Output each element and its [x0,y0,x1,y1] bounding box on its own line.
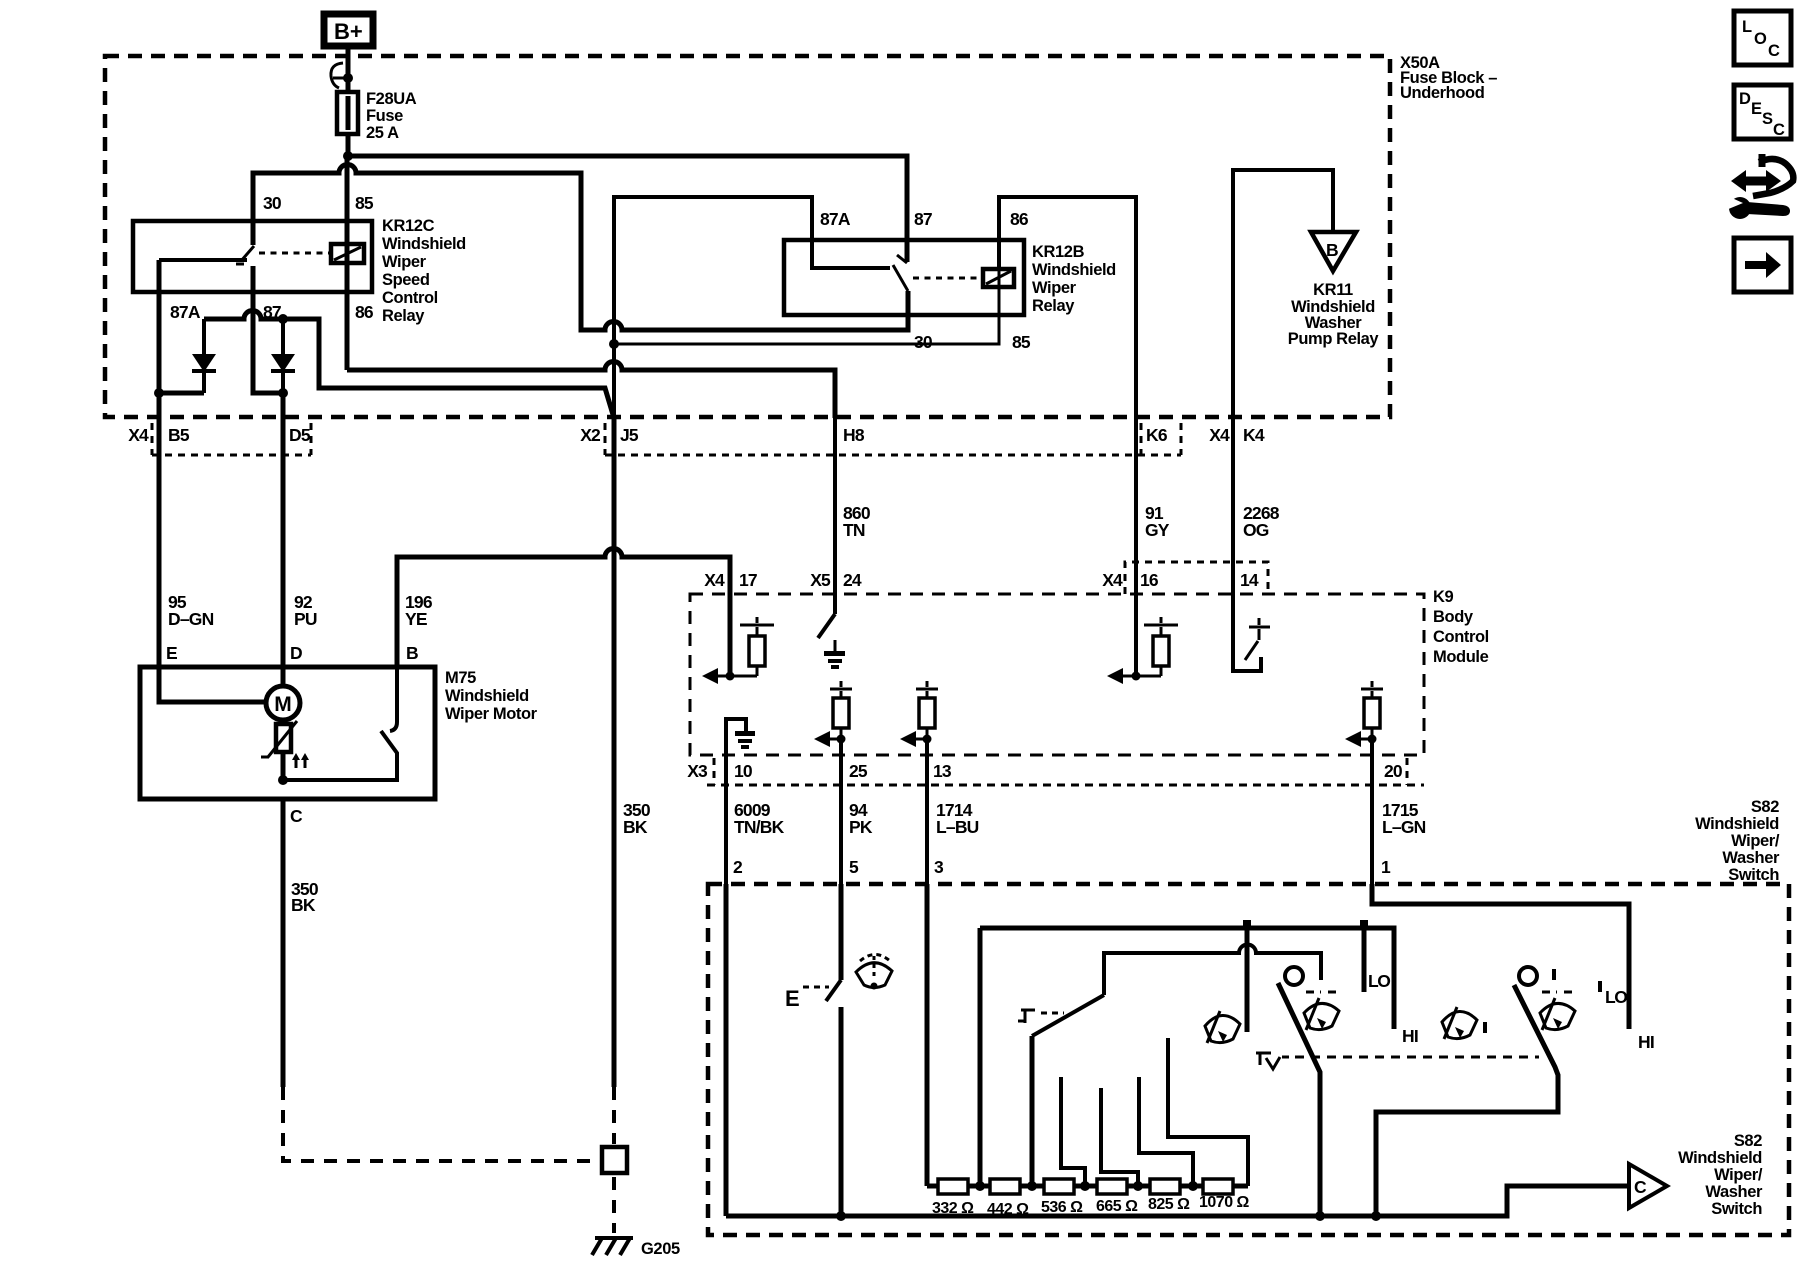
contact LO group A [1362,928,1367,992]
label KR12B pin 30 [914,332,933,352]
label wire 196 YE [405,592,433,629]
icon washer spray [856,955,892,990]
svg-text:YE: YE [405,609,427,629]
node chain tap 3 [1080,1181,1090,1191]
wire J5 ground dashed [612,1087,616,1144]
svg-text:OG: OG [1243,520,1269,540]
node top bus tick A [1243,920,1251,928]
svg-text:L–GN: L–GN [1382,817,1426,837]
svg-text:Control: Control [1433,628,1489,646]
node top bus tick B [1360,920,1368,928]
relay KR12B 87A contact wire [812,240,890,268]
wire delay selector feed [1104,945,1321,996]
svg-text:Speed: Speed [382,271,430,289]
svg-text:GY: GY [1145,520,1170,540]
svg-text:S: S [1762,110,1773,128]
label wire 92 PU [294,592,317,629]
svg-text:332 Ω: 332 Ω [932,1200,974,1217]
svg-text:B: B [1326,240,1338,260]
connector labels X4 17 X5 24 [704,570,862,590]
svg-text:S82: S82 [1751,798,1779,816]
wire motor C 350 BK [281,799,286,1087]
svg-text:D: D [1739,90,1751,108]
svg-text:HI: HI [1402,1026,1418,1046]
wire KR11 B riser K4 [1233,170,1333,418]
wire delay tap 665 [1101,1088,1138,1186]
node chain tap 4 [1133,1181,1143,1191]
svg-text:D5: D5 [289,425,311,445]
svg-text:536 Ω: 536 Ω [1041,1199,1083,1216]
diode CR1 [192,319,216,393]
label S82 name upper [1695,798,1780,884]
BCM pin 10 ground [726,719,755,758]
S82 wiper top bus [980,928,1394,1029]
svg-text:O: O [1754,30,1767,48]
BCM input pin 17 resistor [702,617,774,684]
wire delay arm to tap2 [1030,1036,1035,1186]
wire 196 YE motor B to BCM 17 [397,549,730,677]
wire splice to ground dashed [612,1177,616,1233]
BCM output pin 25 resistor [814,681,852,747]
resistor 825 ohm [1148,1179,1190,1213]
wire 91 GY K6 to BCM 16 [1134,418,1138,676]
svg-text:13: 13 [933,761,952,781]
svg-text:X5: X5 [810,570,831,590]
svg-text:BK: BK [291,895,316,915]
svg-text:Wiper: Wiper [1032,279,1077,297]
wire fuse to junction [346,134,351,156]
label washer switch E [785,986,829,1011]
svg-text:87A: 87A [170,302,201,322]
label position tick park B [1483,1022,1487,1033]
svg-text:K4: K4 [1243,425,1265,445]
svg-text:M: M [274,693,292,716]
wire diode top rail [204,311,614,419]
svg-text:D–GN: D–GN [168,609,214,629]
connector row X4 B5 D5 labels [128,423,311,455]
terminal B+ [324,14,373,46]
icon delay selector [1018,1010,1064,1023]
icon next arrow box [1734,238,1791,292]
svg-text:S82: S82 [1734,1132,1762,1150]
resistor 332 ohm [932,1179,974,1217]
connector row X2 J5 H8 K6 labels [580,423,1181,455]
svg-text:20: 20 [1384,761,1403,781]
svg-text:Wiper Motor: Wiper Motor [445,705,538,723]
icon delay gang link [1256,1053,1289,1069]
svg-text:Pump Relay: Pump Relay [1288,330,1380,348]
svg-text:PU: PU [294,609,317,629]
label KR12C pin 87A [170,302,201,322]
svg-text:G205: G205 [641,1240,680,1258]
wire motor E internal [159,667,266,702]
icon LOC box [1734,11,1791,65]
connector row X3 10 25 13 20 [687,758,1424,785]
svg-text:KR11: KR11 [1313,281,1353,299]
svg-text:Control: Control [382,289,438,307]
svg-text:442 Ω: 442 Ω [987,1201,1029,1218]
svg-text:Relay: Relay [382,307,425,325]
wire 1715 L-GN BCM 20 to S82 1 [1370,739,1374,884]
node arm A bus junction [1315,1211,1325,1221]
label KR12C pin 85 [355,193,374,213]
relay KR12B switch arm [893,265,908,291]
label S82 name lower [1678,1132,1763,1218]
icon wiper run B [1540,992,1575,1030]
label KR12B pin 87 [914,209,932,229]
wire S82 pin 3 to resistor chain [925,884,930,1186]
svg-text:E: E [1751,100,1762,118]
svg-text:C: C [1773,121,1785,139]
svg-text:30: 30 [914,332,933,352]
relay KR12B pin 30 leg [906,291,911,315]
wire 860 TN H8 to BCM 24 [833,418,837,614]
svg-text:X4: X4 [128,425,149,445]
svg-text:KR12C: KR12C [382,217,435,235]
wire S82 pin 5 lower [839,1007,844,1216]
label wire 350 BK motor [291,879,319,915]
node fuse input [343,73,353,83]
contact common group A [1245,928,1250,1032]
node chain tap 2 [1027,1181,1037,1191]
relay KR12C pin 30 contact [251,221,256,245]
resistor 536 ohm [1041,1179,1083,1216]
label LO group B [1598,981,1627,1007]
svg-text:L–BU: L–BU [936,817,979,837]
wire motor ground dashed [283,1087,596,1161]
svg-text:30: 30 [263,193,282,213]
wire S82 pin 5 upper [839,884,844,980]
label KR12B pin 87A [820,209,851,229]
wire gang dashed link [1295,1056,1539,1059]
icon wiper park A [1205,1011,1240,1043]
node J5 riser pin85 junction [609,339,619,349]
relay KR12B coil [983,269,1014,287]
svg-text:85: 85 [1012,332,1031,352]
label S82 connector pins 2 5 3 1 [733,857,1391,877]
BCM output pin 13 resistor [900,681,938,747]
svg-text:1070 Ω: 1070 Ω [1199,1194,1250,1211]
svg-text:87A: 87A [820,209,851,229]
label wire 860 TN [843,503,871,540]
motor M armature [266,686,300,720]
resistor 1070 ohm [1199,1179,1250,1211]
svg-text:F28UA: F28UA [366,90,417,108]
label wire 94 PK [849,800,873,837]
wire 1714 L-BU BCM 13 to S82 3 [925,739,929,884]
svg-text:25 A: 25 A [366,124,399,142]
relay KR12C coil dashed link [259,252,331,255]
connector row X4 K4 labels [1209,425,1265,445]
svg-text:Underhood: Underhood [1400,84,1484,102]
svg-text:X3: X3 [687,761,708,781]
svg-text:X2: X2 [580,425,601,445]
label HI group A [1402,1026,1418,1046]
svg-text:C: C [1768,42,1780,60]
label KR12B pin 86 [1010,209,1029,229]
svg-text:1: 1 [1381,857,1391,877]
fuse block X50A dashed box [105,56,1390,417]
relay KR12C 87A contact wire [159,258,247,262]
svg-text:Wiper/: Wiper/ [1714,1166,1763,1184]
svg-text:TN: TN [843,520,865,540]
icon vehicle service arrows [1723,154,1793,219]
svg-text:Wiper/: Wiper/ [1731,832,1780,850]
label wire 2268 OG [1243,503,1280,540]
svg-text:Wiper: Wiper [382,253,427,271]
svg-text:PK: PK [849,817,873,837]
label wire 95 D-GN [168,592,214,629]
svg-text:C: C [1634,1177,1647,1197]
svg-text:25: 25 [849,761,868,781]
wire KR12C 87 leg [253,266,283,393]
switch S82 dashed box [708,884,1789,1235]
svg-text:Windshield: Windshield [1678,1149,1762,1167]
label wire 1715 L-GN [1382,800,1426,837]
wire 94 PK BCM 25 to S82 5 [839,739,843,884]
wire KR12C 30 to KR12B 30 [253,165,908,331]
svg-text:TN/BK: TN/BK [734,817,785,837]
label K9 Body Control Module [1433,588,1489,666]
wire D5 to motor D [281,393,286,667]
switch delay selector arm [1032,995,1104,1036]
wire KR12B 86 to K6 [999,197,1136,418]
svg-text:5: 5 [849,857,859,877]
icon wiper park B [1442,1007,1477,1039]
svg-text:86: 86 [355,302,374,322]
wire B+ to fuse [346,46,351,92]
svg-text:X4: X4 [1102,570,1123,590]
wire KR12C 86 to H8 [347,362,835,419]
wire KR12C 85-86 riser [345,156,350,370]
label X50A Fuse Block Underhood [1400,54,1497,102]
wire fuse to KR12B pin 87 [348,156,907,262]
wire motor D internal [281,667,286,687]
wire delay tap 825 [1139,1077,1193,1186]
wire 6009 TN/BK BCM 10 to S82 2 [724,739,728,884]
label motor pin B [406,643,418,663]
wire delay tap 1070 [1168,1038,1248,1186]
svg-text:Fuse: Fuse [366,107,403,125]
splice S-box [602,1147,627,1173]
svg-text:X4: X4 [1209,425,1230,445]
wire delay tap 536 [1061,1077,1085,1186]
label wire 91 GY [1145,503,1170,540]
svg-text:X4: X4 [704,570,725,590]
svg-text:Washer: Washer [1705,1183,1763,1201]
svg-text:Windshield: Windshield [445,687,529,705]
icon DESC box [1734,85,1791,139]
svg-text:16: 16 [1140,570,1159,590]
svg-text:24: 24 [843,570,862,590]
switch wiper mode arm B [1376,985,1558,1216]
svg-text:17: 17 [739,570,757,590]
svg-text:BK: BK [623,817,648,837]
ground G205 [592,1238,680,1258]
svg-text:C: C [290,806,303,826]
label KR12B pin 85 [1012,332,1031,352]
svg-text:Switch: Switch [1728,866,1779,884]
label KR11 name [1288,281,1380,348]
node chain tap 1 [975,1181,985,1191]
wire 2268 OG K4 to BCM 14 [1231,418,1235,671]
motor park switch [283,667,397,780]
relay KR12B pin 87 tick [897,255,907,263]
wire S82 pin 2 to bus [724,884,729,1216]
svg-text:L: L [1742,18,1752,36]
svg-text:2: 2 [733,857,743,877]
svg-text:87: 87 [914,209,932,229]
label HI group B [1638,1032,1654,1052]
svg-text:Module: Module [1433,648,1489,666]
svg-text:E: E [785,986,800,1011]
label motor pin C [290,806,303,826]
svg-text:B: B [406,643,418,663]
node 87 diode junction [278,388,288,398]
wire J5 riser to KR12B 87A [614,197,812,418]
svg-text:10: 10 [734,761,753,781]
svg-text:Windshield: Windshield [1695,815,1779,833]
BCM input pin 16 resistor [1107,617,1178,684]
svg-text:J5: J5 [620,425,639,445]
label motor pin E [166,643,177,663]
label motor M75 name [445,669,538,723]
switch wiper mode circle B [1519,967,1537,985]
wire KR12C 87A to B5 [157,260,162,667]
relay KR12C box [133,221,372,292]
svg-text:825 Ω: 825 Ω [1148,1196,1190,1213]
node arm B bus junction [1371,1211,1381,1221]
resistor 442 ohm [987,1179,1029,1218]
svg-text:K6: K6 [1146,425,1168,445]
label LO group A [1368,971,1390,991]
node fuse output junction [343,151,353,161]
label motor pin D [290,643,302,663]
svg-text:14: 14 [1240,570,1259,590]
svg-text:B5: B5 [168,425,190,445]
svg-text:M75: M75 [445,669,476,687]
BCM pin 14 switch [1233,594,1270,671]
svg-text:Washer: Washer [1722,849,1780,867]
node motor C junction [278,775,288,785]
label KR12B name [1032,243,1116,315]
label wire 1714 L-BU [936,800,979,837]
switch wiper mode circle A [1285,967,1303,985]
resistor chain bus [927,1184,1248,1189]
svg-text:Switch: Switch [1711,1200,1762,1218]
svg-text:3: 3 [934,857,944,877]
node 87A diode junction [154,388,164,398]
relay KR12B coil dashed link [913,277,983,280]
svg-text:85: 85 [355,193,374,213]
switch washer contact arm [826,980,841,1001]
BCM output pin 20 resistor [1345,681,1383,747]
connector dotted box X4 16 14 [1102,562,1268,594]
svg-text:H8: H8 [843,425,865,445]
motor thermistor [261,720,297,780]
BCM pin 24 switch to ground [818,594,845,669]
switch wiper mode arm A [1278,983,1320,1216]
svg-text:HI: HI [1638,1032,1654,1052]
svg-text:Body: Body [1433,608,1474,626]
wire KR12B 85 to J5 [614,286,999,344]
svg-text:Windshield: Windshield [382,235,466,253]
node diode2 top junction [278,314,288,324]
label KR12C pin 86 [355,302,374,322]
svg-text:LO: LO [1605,987,1627,1007]
svg-text:86: 86 [1010,209,1029,229]
svg-text:Relay: Relay [1032,297,1075,315]
node pin5 bus junction [836,1211,846,1221]
label KR12C pin 87 [263,302,281,322]
svg-text:665 Ω: 665 Ω [1096,1198,1138,1215]
svg-text:LO: LO [1368,971,1390,991]
relay KR11 B terminal triangle [1311,232,1356,271]
svg-text:E: E [166,643,177,663]
out arrow C [1629,1164,1667,1208]
wire chain riser to top bus [978,928,983,1186]
svg-text:K9: K9 [1433,588,1454,606]
svg-text:KR12B: KR12B [1032,243,1085,261]
label KR12C name [382,217,466,325]
fusible link hook [331,63,346,88]
motor PTC arrows [292,753,309,768]
wire diode1 to 87A [159,391,204,396]
svg-text:D: D [290,643,302,663]
relay KR12C coil [331,244,364,263]
fuse F28UA 25A [337,90,417,142]
icon wiper run A [1304,992,1339,1030]
label wire 350 BK J5 [623,800,651,837]
relay KR12B box [784,240,1024,315]
resistor 665 ohm [1096,1179,1138,1215]
node chain tap 5 [1188,1181,1198,1191]
label position tick circle B [1552,969,1556,980]
motor M75 box [140,667,435,799]
svg-text:Windshield: Windshield [1032,261,1116,279]
svg-text:B+: B+ [334,19,363,44]
BCM K9 dashed box [690,594,1424,755]
relay KR12C switch arm [236,246,254,264]
label wire 6009 TN/BK [734,800,785,837]
wire S82 pin 1 to HI B [1372,884,1629,1029]
wire J5 350 BK down [612,418,617,1087]
S82 internal bottom bus [726,1186,1629,1216]
diode CR2 [271,319,295,393]
label KR12C pin 30 [263,193,282,213]
